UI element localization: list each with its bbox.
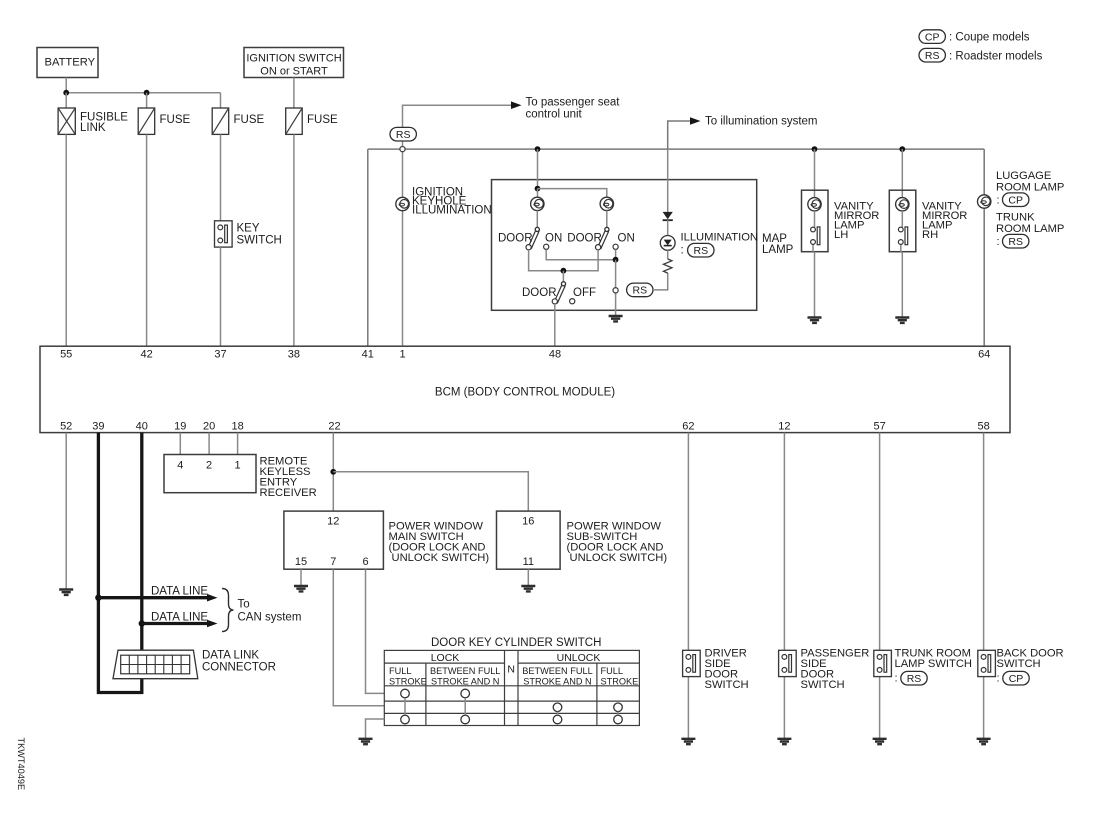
node junction data line 1: [95, 595, 101, 601]
switch back door: [978, 650, 996, 676]
wire key switch to BCM pin 37: [220, 247, 222, 346]
svg-text:DATA LINE: DATA LINE: [151, 611, 208, 623]
node junction inside map lamp box: [535, 186, 541, 192]
wire diode to LED: [667, 220, 669, 235]
svg-text:: Coupe models: : Coupe models: [949, 32, 1030, 44]
wire branch to sub-switch pin 16: [333, 472, 528, 511]
node junction pin 22 branch: [330, 469, 336, 475]
svg-text:18: 18: [231, 421, 243, 433]
svg-text:4: 4: [177, 459, 183, 471]
switch SW2 contacts: [596, 245, 601, 250]
wire BCM pin 12 to passenger side door switch: [783, 433, 785, 739]
resistor R1: [664, 259, 672, 273]
svg-text:58: 58: [977, 421, 989, 433]
wire CAN data line pin 39 (thick): [98, 433, 141, 693]
svg-text:BETWEEN FULL: BETWEEN FULL: [522, 666, 592, 676]
svg-text:2: 2: [206, 459, 212, 471]
svg-text:7: 7: [330, 556, 336, 568]
svg-text::: :: [895, 673, 898, 685]
fuse F2: [212, 108, 264, 134]
RS oval trunk room lamp switch: [901, 671, 927, 685]
svg-text:LINK: LINK: [80, 122, 106, 134]
wire illumination branch above bus: [668, 121, 691, 149]
wire lamp supply bus: [368, 148, 984, 150]
wire bus to fusible link: [65, 93, 67, 108]
wire fusible link to BCM pin 55: [65, 134, 67, 346]
ground vanity RH: [895, 318, 909, 323]
svg-text:38: 38: [288, 349, 300, 361]
svg-text:DOOR KEY CYLINDER SWITCH: DOOR KEY CYLINDER SWITCH: [431, 637, 601, 649]
wire bus to fuse F1: [146, 93, 148, 108]
svg-text:RECEIVER: RECEIVER: [260, 487, 317, 499]
brace to CAN system: [222, 589, 234, 632]
CP oval luggage room lamp: [1003, 193, 1029, 207]
door key cylinder switch table: [384, 637, 639, 726]
switch SW1 arm DOOR/ON: [528, 227, 539, 248]
wire fuse F2 to key switch: [220, 134, 222, 220]
map lamp box: [492, 180, 757, 311]
power window main switch box: [284, 511, 489, 569]
svg-text:STROKE: STROKE: [601, 676, 639, 686]
svg-text:22: 22: [328, 421, 340, 433]
RS oval illumination: [688, 243, 714, 257]
legend RS oval: [919, 48, 945, 62]
svg-text:55: 55: [60, 349, 72, 361]
wire bulb1 to switch 1: [536, 211, 538, 228]
svg-text:40: 40: [136, 421, 148, 433]
wire ON contacts link: [546, 249, 615, 259]
svg-text:BATTERY: BATTERY: [45, 57, 96, 69]
svg-text:FUSE: FUSE: [160, 114, 191, 126]
ground map lamp box: [609, 316, 623, 321]
lamp map lamp bulb 1: [531, 197, 544, 210]
svg-text:ILLUMINATION: ILLUMINATION: [681, 232, 759, 244]
wire bus into map lamp box: [537, 149, 539, 189]
wire fuse F1 to BCM pin 42: [146, 134, 148, 346]
svg-text:STROKE AND N: STROKE AND N: [523, 676, 591, 686]
BCM (body control module) box: [40, 346, 1010, 432]
power window sub-switch box: [497, 511, 668, 569]
wire main switch pin 15 to ground: [300, 569, 302, 586]
svg-text:DOOR: DOOR: [522, 287, 557, 299]
svg-text:12: 12: [778, 421, 790, 433]
svg-text:DATA LINK: DATA LINK: [202, 650, 259, 662]
svg-text:16: 16: [522, 515, 534, 527]
svg-text::: :: [681, 245, 684, 257]
svg-text:57: 57: [873, 421, 885, 433]
arrow to illumination system: [690, 117, 701, 125]
svg-text:control unit: control unit: [526, 109, 583, 121]
svg-text:19: 19: [174, 421, 186, 433]
svg-text:64: 64: [978, 349, 990, 361]
svg-text:62: 62: [682, 421, 694, 433]
node battery bus junction 2: [144, 90, 150, 96]
wire bus to vanity lamp LH: [814, 149, 816, 197]
switch SW3 arm DOOR/OFF: [562, 271, 564, 282]
svg-text:STROKE AND N: STROKE AND N: [431, 676, 499, 686]
wire SW3 to BCM pin 48: [554, 304, 556, 346]
svg-text:15: 15: [295, 556, 307, 568]
wire ignition switch to fuse F3: [293, 78, 295, 109]
svg-text:ROOM LAMP: ROOM LAMP: [996, 223, 1064, 235]
svg-text:37: 37: [214, 349, 226, 361]
svg-text:ROOM LAMP: ROOM LAMP: [996, 181, 1064, 193]
svg-text:DOOR: DOOR: [498, 233, 533, 245]
wire BCM pin 58 to back door switch: [983, 433, 985, 739]
node junction ON link: [613, 257, 619, 263]
switch SW3 contacts: [552, 299, 557, 304]
node junction DOOR link: [561, 268, 567, 274]
wire vanity LH internal: [813, 211, 815, 318]
switch trunk room lamp: [874, 650, 892, 676]
wire BCM pin 22 to power window main switch pin 12: [332, 433, 334, 512]
svg-text:CAN system: CAN system: [238, 612, 302, 624]
svg-text:SWITCH: SWITCH: [237, 235, 282, 247]
wire link to second map lamp: [538, 189, 607, 198]
wire BCM pin 19 to receiver pin 4: [179, 433, 181, 455]
RS oval map lamp: [627, 283, 653, 297]
node junction vanity LH on bus: [812, 146, 818, 152]
svg-text:UNLOCK SWITCH): UNLOCK SWITCH): [570, 552, 668, 564]
ground door key cylinder switch: [359, 739, 373, 744]
wire data line arrow 2: [142, 622, 208, 625]
svg-text:IGNITION SWITCH: IGNITION SWITCH: [246, 53, 341, 65]
svg-text:41: 41: [362, 349, 374, 361]
svg-text:48: 48: [549, 349, 561, 361]
wire RS oval to resistor: [653, 273, 668, 290]
svg-text:SWITCH: SWITCH: [801, 679, 845, 691]
svg-text:SWITCH: SWITCH: [997, 658, 1041, 670]
data link connector: [113, 650, 276, 679]
node junction vanity RH on bus: [899, 146, 905, 152]
switch driver side door: [683, 650, 701, 676]
svg-text:BETWEEN FULL: BETWEEN FULL: [430, 666, 500, 676]
ground pin 52: [59, 590, 73, 595]
switch vanity RH: [898, 227, 907, 245]
ground vanity LH: [808, 318, 822, 323]
node junction data line 2: [139, 620, 145, 626]
svg-text:LAMP SWITCH: LAMP SWITCH: [895, 658, 973, 670]
svg-text:SWITCH: SWITCH: [705, 679, 749, 691]
node battery bus junction 1: [63, 90, 69, 96]
wire main switch pin 7 to table row 4: [333, 569, 384, 706]
ground driver side door switch: [681, 739, 695, 744]
svg-text:TRUNK: TRUNK: [996, 211, 1035, 223]
wire sub-switch pin 11 to ground: [527, 569, 529, 586]
remote keyless entry receiver box: [164, 455, 317, 500]
wire BCM pin 20 to receiver pin 2: [208, 433, 210, 455]
svg-text:DOOR: DOOR: [567, 233, 602, 245]
wire bus to vanity lamp RH: [901, 149, 903, 197]
wire battery bus: [66, 92, 220, 94]
vanity mirror lamp LH box: [802, 190, 829, 252]
fuse F3: [286, 108, 338, 134]
svg-text:39: 39: [92, 421, 104, 433]
fuse F1: [138, 108, 190, 134]
wire BCM pin 57 to trunk room lamp switch: [879, 433, 881, 739]
wire DOOR contacts link: [529, 250, 599, 271]
svg-text::: :: [997, 236, 1000, 248]
svg-text:DATA LINE: DATA LINE: [151, 585, 208, 597]
ground sub-switch: [521, 586, 535, 591]
wire LED to resistor: [667, 250, 669, 259]
table contact circles unlock between: [553, 703, 562, 712]
svg-text:STROKE: STROKE: [389, 676, 427, 686]
svg-text:LUGGAGE: LUGGAGE: [996, 170, 1051, 182]
svg-text:LOCK: LOCK: [431, 652, 460, 664]
wire illumination branch riser: [667, 149, 669, 212]
wire battery to bus: [65, 78, 67, 93]
svg-text:1: 1: [399, 349, 405, 361]
ground trunk room lamp switch: [873, 739, 887, 744]
wire bulb2 to switch 2: [606, 211, 608, 228]
svg-text::: :: [997, 195, 1000, 207]
switch SW2 arm DOOR/ON: [598, 227, 609, 248]
table contact circles unlock full stroke: [614, 703, 623, 712]
switch SW1 contacts: [526, 245, 531, 250]
wire main switch pin 6 to table row 3: [366, 569, 385, 693]
svg-text:N: N: [507, 664, 515, 676]
switch vanity LH: [811, 227, 820, 245]
wire BCM pin 18 to receiver pin 1: [237, 433, 239, 455]
svg-text:TKWT4049E: TKWT4049E: [16, 738, 26, 791]
svg-text:ON or START: ON or START: [260, 66, 328, 78]
svg-text:11: 11: [523, 556, 534, 568]
svg-text:ILLUMINATION: ILLUMINATION: [412, 205, 492, 217]
lamp luggage/trunk room: [978, 195, 991, 208]
ground back door switch: [977, 739, 991, 744]
svg-text:FUSE: FUSE: [234, 114, 265, 126]
lamp vanity RH bulb: [896, 198, 909, 211]
wire fuse F3 to BCM pin 38: [293, 134, 295, 346]
svg-text:20: 20: [203, 421, 215, 433]
svg-text:To: To: [238, 599, 250, 611]
wire data line arrow 1: [98, 596, 208, 599]
svg-text:ON: ON: [618, 233, 635, 245]
svg-text:LH: LH: [834, 229, 848, 241]
svg-text:12: 12: [327, 515, 339, 527]
node junction map lamp branch on bus: [535, 146, 541, 152]
wire bus right end to luggage lamp and BCM pin 64: [983, 149, 985, 346]
arrow to passenger seat control unit: [511, 101, 522, 109]
svg-text:6: 6: [362, 556, 368, 568]
CP oval back door switch: [1003, 671, 1029, 685]
svg-text:UNLOCK: UNLOCK: [557, 652, 601, 664]
svg-text:MAP: MAP: [762, 233, 787, 245]
svg-text:To passenger seat: To passenger seat: [526, 97, 621, 109]
svg-text:UNLOCK SWITCH): UNLOCK SWITCH): [392, 552, 490, 564]
RS oval trunk room lamp: [1003, 234, 1029, 248]
vanity mirror lamp RH box: [889, 190, 916, 252]
lamp vanity LH bulb: [808, 198, 821, 211]
table contact circles lock between: [461, 689, 470, 698]
svg-text:1: 1: [235, 459, 241, 471]
table contact circles lock full stroke: [401, 689, 410, 698]
ground main switch: [294, 586, 308, 591]
key switch: [215, 221, 282, 247]
switch passenger side door: [779, 650, 797, 676]
node open junction RS branch: [613, 288, 618, 293]
svg-text:52: 52: [60, 421, 72, 433]
wire BCM pin 1 riser to passenger seat branch: [403, 105, 512, 346]
wire vanity RH internal: [901, 211, 903, 318]
svg-text:: Roadster models: : Roadster models: [949, 50, 1043, 62]
lamp map lamp bulb 2: [600, 197, 613, 210]
LED illumination lamp: [660, 236, 675, 251]
svg-text:LAMP: LAMP: [762, 244, 794, 256]
ground passenger side door switch: [777, 739, 791, 744]
wire ON junction down to ground: [615, 260, 617, 316]
wire bus to fuse F2: [220, 93, 222, 108]
legend CP oval: [919, 30, 945, 44]
svg-text:KEY: KEY: [237, 223, 260, 235]
wire BCM pin 41 riser: [367, 149, 369, 346]
diode D1: [663, 212, 673, 220]
svg-text:OFF: OFF: [573, 287, 596, 299]
svg-text:FULL: FULL: [389, 666, 411, 676]
wire table ground stub: [366, 719, 385, 739]
svg-text:CONNECTOR: CONNECTOR: [202, 662, 276, 674]
svg-text:BCM (BODY CONTROL MODULE): BCM (BODY CONTROL MODULE): [435, 387, 615, 399]
wire CAN data line pin 40 (thick): [140, 433, 143, 624]
fusible link: [58, 108, 128, 134]
RS oval on pin 1 branch: [390, 127, 416, 141]
svg-text:To illumination system: To illumination system: [705, 116, 817, 128]
svg-text:RH: RH: [922, 229, 938, 241]
lamp ignition keyhole illumination: [396, 197, 409, 210]
battery B1: [37, 48, 98, 78]
svg-text:ON: ON: [545, 233, 562, 245]
svg-text:FUSE: FUSE: [307, 114, 338, 126]
svg-text::: :: [997, 673, 1000, 685]
ignition switch source box: [244, 48, 344, 78]
wire BCM pin 52 to ground: [65, 433, 67, 590]
node open junction pin1 on bus: [400, 147, 405, 152]
wire BCM pin 62 to driver side door switch: [687, 433, 689, 739]
svg-text:42: 42: [140, 349, 152, 361]
svg-text:FULL: FULL: [601, 666, 623, 676]
